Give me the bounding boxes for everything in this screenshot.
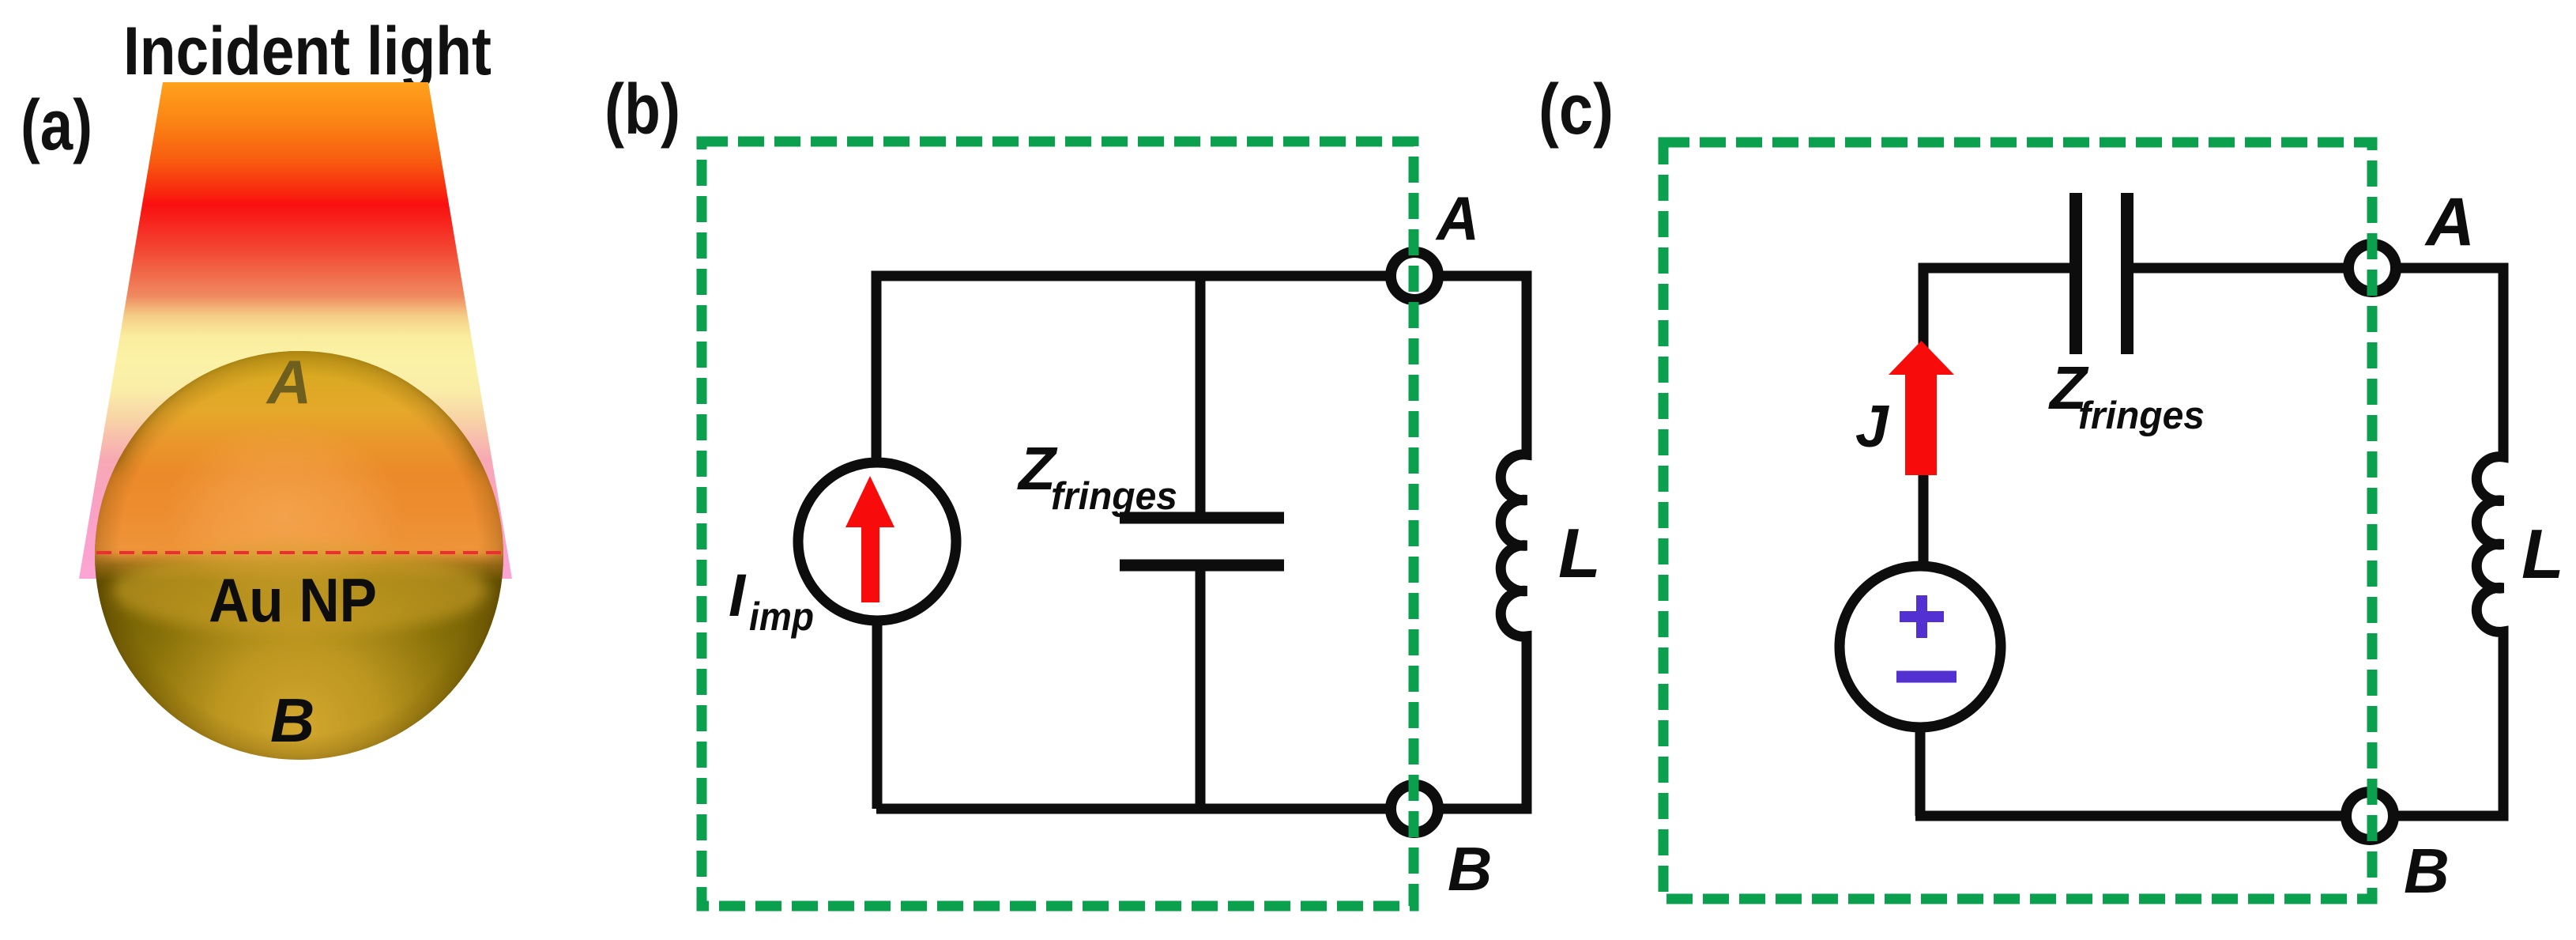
svg-text:I: I	[729, 562, 747, 629]
svg-text:A: A	[2424, 184, 2475, 260]
svg-text:(a): (a)	[21, 86, 92, 165]
wire: top rail left segment c	[1923, 263, 2076, 274]
wire: top rail b	[876, 271, 1527, 281]
svg-text:fringes: fringes	[1051, 475, 1177, 518]
svg-text:(c): (c)	[1538, 70, 1614, 149]
incident light beam	[79, 82, 512, 579]
svg-text:L: L	[1558, 514, 1601, 592]
svg-text:A: A	[1435, 183, 1479, 253]
voltage source circle c	[1840, 566, 2001, 727]
svg-text:A: A	[266, 347, 311, 417]
circuit wires b	[876, 271, 1527, 814]
Au nanoparticle sphere	[93, 331, 506, 760]
voltage source minus sign	[1896, 671, 1956, 683]
wire: left branch upper c	[1919, 268, 1929, 566]
green dashed boundary box c	[1663, 142, 2372, 899]
svg-text:J: J	[1855, 393, 1889, 459]
current source I_imp circle	[798, 462, 956, 621]
wire: left branch lower	[872, 621, 883, 809]
svg-text:imp: imp	[749, 595, 814, 639]
svg-text:B: B	[2404, 836, 2450, 906]
inductor L right branch b	[1501, 271, 1527, 814]
node A b	[1391, 252, 1438, 300]
svg-text:B: B	[270, 685, 314, 755]
svg-text:fringes: fringes	[2078, 394, 2205, 437]
wire: left branch upper	[872, 271, 882, 463]
svg-text:L: L	[2521, 515, 2564, 593]
wire: top rail right segment c	[2126, 263, 2503, 274]
wire: bottom rail b	[876, 804, 1527, 814]
wire: bottom rail c	[1915, 811, 2503, 821]
node A c	[2348, 244, 2396, 292]
node B c	[2346, 792, 2393, 840]
current density arrow J	[1889, 341, 1954, 475]
current source arrow	[845, 476, 894, 602]
svg-text:B: B	[1448, 834, 1492, 904]
circuit wires c	[1915, 263, 2503, 821]
wire: capacitor branch lower	[1196, 569, 1206, 809]
capacitor C plates c	[2076, 193, 2127, 354]
green dashed boundary box b	[702, 142, 1414, 906]
inductor L right branch c	[2476, 263, 2503, 821]
svg-text:(b): (b)	[604, 70, 680, 149]
capacitor C plates b	[1120, 518, 1284, 565]
red dashed equator line	[96, 551, 503, 554]
voltage source plus sign	[1900, 595, 1944, 638]
svg-text:Au NP: Au NP	[209, 565, 377, 635]
svg-text:Incident light: Incident light	[123, 13, 491, 89]
wire: left branch lower c	[1915, 726, 1926, 816]
node B b	[1391, 785, 1438, 832]
wire: capacitor branch upper	[1196, 276, 1206, 512]
